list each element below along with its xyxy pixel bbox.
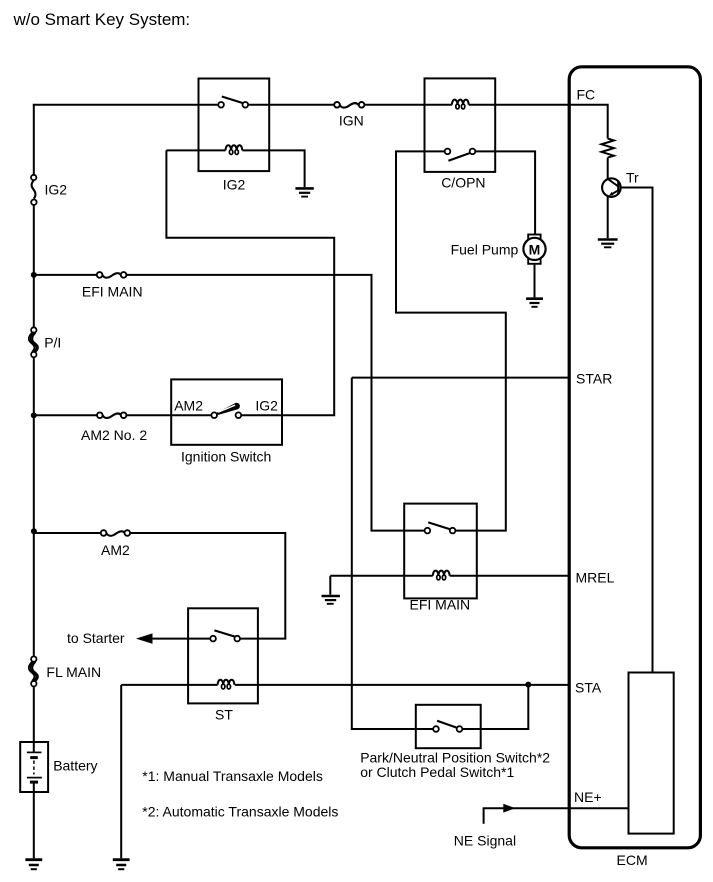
switch contact C/OPN right [470,149,476,155]
switch contact IG2 relay right [243,102,249,108]
svg-text:FC: FC [577,87,596,103]
wire: IGN fuse to C/OPN relay coil [364,104,452,106]
switch contact ignition IG2 [236,412,242,418]
svg-text:C/OPN: C/OPN [441,175,485,191]
svg-text:or Clutch Pedal Switch*1: or Clutch Pedal Switch*1 [360,764,514,780]
wire: C/OPN switch right contact to fuel pump [475,151,535,235]
coil EFI MAIN relay [330,571,569,580]
svg-text:*2: Automatic Transaxle Models: *2: Automatic Transaxle Models [142,804,338,820]
svg-text:ST: ST [215,707,233,723]
relay EFI MAIN [404,504,477,599]
svg-text:IG2: IG2 [45,182,68,198]
wire: STAR line down to park/neutral switch [352,378,433,729]
resistor (inside ECM) [602,139,614,158]
fusible link FL MAIN [29,656,101,686]
switch contact ST right [234,636,240,642]
switch lever IG2 relay [222,97,243,104]
svg-text:EFI MAIN: EFI MAIN [82,284,143,300]
switch contact IG2 relay left [218,102,224,108]
relay ST [188,608,258,703]
relay IG2 [199,79,270,172]
switch contact ignition AM2 [211,412,217,418]
wire: FC pin into resistor [570,105,608,139]
fusible link P/I [29,327,62,357]
switch contact park/neutral left [433,726,439,732]
svg-text:AM2: AM2 [101,542,130,558]
wire: EFI MAIN coil to ground [329,576,331,595]
wire: main battery bus vertical segment 2 [33,205,35,328]
wire: park/neutral switch to STA junction [462,685,528,729]
wire: resistor to transistor [607,158,609,179]
svg-text:NE+: NE+ [574,789,602,805]
svg-text:EFI MAIN: EFI MAIN [410,597,471,613]
wire: fuel pump to ground [534,264,536,298]
svg-text:MREL: MREL [576,569,615,585]
wire: main battery bus vertical segment 3 [33,357,35,656]
switch contact EFI MAIN left [425,528,431,534]
node: junction dot STA line [525,682,531,688]
svg-text:M: M [529,241,541,257]
wire: STAR pin line [352,377,570,379]
internal circuit block (inside ECM) [629,673,674,834]
coil IG2 relay [166,145,304,154]
node: junction dot AM2 No.2 branch [31,412,37,418]
wire: transistor base to internal block [621,188,653,673]
ground (battery) [25,860,42,870]
ground (IG2 relay coil) [295,188,313,196]
svg-text:IG2: IG2 [255,398,278,414]
ground (fuel pump) [526,299,543,307]
fuse AM2 [101,530,130,558]
wire: ST coil to ground [120,685,122,858]
svg-text:STA: STA [575,680,602,696]
wire: IG2 relay coil to ground [304,149,306,187]
svg-text:*1: Manual Transaxle Models: *1: Manual Transaxle Models [142,768,323,784]
wire: bus to AM2 No.2 fuse [34,414,99,416]
wire: bus to AM2 fuse [34,532,101,534]
ground (transistor emitter) [598,240,618,248]
arrow NE signal [503,804,515,813]
wire: EFI MAIN fuse line from bus [34,274,98,276]
svg-text:ECM: ECM [617,852,648,868]
wire: battery to ground [33,783,35,859]
svg-text:NE Signal: NE Signal [454,832,516,848]
wire: IG2 relay coil to ignition switch IG2 terminal [166,150,334,415]
coil C/OPN relay [452,100,570,109]
wire: NE signal stub [484,808,629,824]
node: junction dot AM2 branch [31,528,37,534]
fuse EFI MAIN [82,272,143,299]
svg-text:Ignition Switch: Ignition Switch [181,448,271,464]
wire: AM2 fuse to ST relay switch [130,533,285,639]
ECM block [569,67,700,848]
ground (EFI MAIN relay coil) [322,596,340,604]
switch lever ignition (thick) [216,403,240,415]
wire: IG2 relay switch to IGN fuse [248,104,335,106]
wire: C/OPN switch left contact to EFI MAIN relay switch [396,151,506,530]
battery [20,742,97,792]
transistor Tr [602,169,639,197]
wire: main battery bus vertical segment 1 [33,105,35,176]
svg-text:AM2 No. 2: AM2 No. 2 [81,427,147,443]
svg-text:IG2: IG2 [223,177,246,193]
fuse AM2 No.2 [81,412,147,443]
switch contact park/neutral right [457,726,463,732]
svg-text:IGN: IGN [339,113,364,129]
fuel pump motor M [451,235,546,264]
park/neutral position switch [416,705,481,748]
fuse IG2 [31,175,67,205]
wire: transistor emitter to ground [607,196,609,238]
svg-text:Battery: Battery [53,758,97,774]
wire: top feed line from bus to IG2 relay [33,104,219,106]
wire: EFI MAIN fuse to EFI MAIN relay switch [126,275,425,531]
wire: AM2 No.2 fuse to ignition switch AM2 contact [127,414,211,416]
switch contact EFI MAIN right [450,528,456,534]
wire: main battery bus into battery [33,686,35,751]
fuse IGN [334,102,364,129]
svg-text:w/o Smart Key System:: w/o Smart Key System: [13,10,191,29]
switch contact ST left [210,636,216,642]
node: junction dot EFI MAIN branch [31,272,37,278]
svg-text:AM2: AM2 [174,398,203,414]
svg-text:FL MAIN: FL MAIN [46,664,101,680]
svg-text:P/I: P/I [44,334,61,350]
switch lever ST relay [214,630,236,637]
switch contact C/OPN left [445,149,451,155]
svg-text:STAR: STAR [576,370,612,386]
svg-text:Fuel Pump: Fuel Pump [451,241,519,257]
ground (ST relay coil) [113,860,130,870]
relay C/OPN [425,78,496,171]
coil ST relay [121,680,569,689]
arrow to starter [136,633,153,643]
wire: ST switch to starter arrow [151,638,211,640]
ignition switch [171,379,282,444]
svg-text:to Starter: to Starter [67,630,125,646]
switch lever park/neutral [437,721,458,728]
switch lever C/OPN relay [448,153,471,161]
svg-text:Tr: Tr [626,169,639,185]
switch lever EFI MAIN relay [428,522,452,530]
